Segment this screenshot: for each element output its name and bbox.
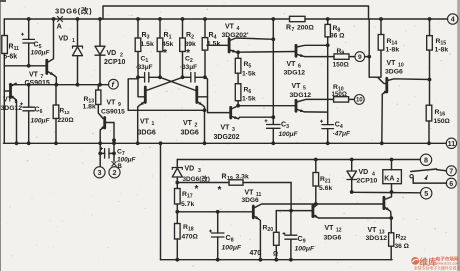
- svg-text:VD: VD: [107, 50, 117, 57]
- resistor R14: [380, 19, 382, 35]
- terminal 3: [94, 167, 105, 178]
- svg-text:2CP10: 2CP10: [104, 59, 126, 66]
- resistor R16: [426, 105, 432, 121]
- svg-text:3DG202': 3DG202': [222, 32, 249, 39]
- svg-text:5.7k: 5.7k: [181, 201, 194, 208]
- node B: [112, 162, 116, 166]
- wire lower top rail: [177, 159, 420, 161]
- svg-text:100μF: 100μF: [295, 246, 315, 253]
- svg-text:1·5k: 1·5k: [242, 71, 256, 78]
- svg-text:7: 7: [292, 27, 295, 33]
- svg-text:3: 3: [232, 127, 235, 133]
- terminal 7: [446, 166, 456, 176]
- svg-text:100μF: 100μF: [117, 157, 137, 164]
- svg-text:220Ω: 220Ω: [58, 117, 74, 124]
- svg-text:VT: VT: [325, 225, 335, 232]
- svg-text:3DG12: 3DG12: [290, 92, 312, 99]
- svg-text:4: 4: [451, 15, 455, 24]
- svg-text:1: 1: [72, 38, 75, 44]
- capacitor C9: [290, 211, 292, 235]
- wire emitter bus: [128, 109, 204, 111]
- svg-text:KA: KA: [384, 176, 394, 183]
- svg-text:VT: VT: [245, 190, 255, 197]
- svg-text:2: 2: [120, 53, 123, 59]
- svg-text:19: 19: [227, 176, 233, 182]
- wire VT1 collector L: [138, 77, 144, 97]
- svg-text:1·5k: 1·5k: [242, 96, 256, 103]
- svg-text:2: 2: [195, 123, 198, 129]
- wire VT12 base L: [290, 183, 292, 211]
- svg-text:470: 470: [250, 250, 262, 257]
- svg-text:Ω: Ω: [273, 251, 278, 258]
- terminal 2: [109, 167, 120, 178]
- svg-text:3: 3: [198, 168, 201, 174]
- svg-text:VT: VT: [3, 97, 13, 104]
- svg-text:150Ω: 150Ω: [434, 118, 451, 125]
- resistor R17: [175, 189, 181, 205]
- svg-text:3: 3: [98, 168, 102, 177]
- terminal 9: [355, 52, 365, 62]
- svg-text:*: *: [218, 185, 222, 196]
- svg-text:5: 5: [303, 86, 306, 92]
- capacitor C7: [99, 143, 101, 166]
- capacitor C6: [28, 85, 30, 107]
- svg-text:1.8k: 1.8k: [83, 104, 96, 111]
- transistor VT8 3DG12: [9, 84, 12, 97]
- svg-text:VT: VT: [287, 61, 297, 68]
- capacitor C3: [267, 124, 281, 126]
- svg-text:VT: VT: [140, 119, 150, 126]
- svg-text:·33μF: ·33μF: [180, 64, 197, 71]
- resistor R19: [177, 182, 229, 184]
- svg-text:VT: VT: [221, 125, 231, 132]
- svg-text:7: 7: [449, 166, 453, 175]
- capacitor C4: [322, 124, 334, 126]
- resistor R1: [159, 19, 161, 38]
- svg-text:3DG6: 3DG6: [181, 130, 199, 137]
- resistor R2: [182, 19, 184, 38]
- transistor VT6 3DG12: [295, 45, 298, 56]
- wire node R11/C5/VT7-base: [4, 65, 46, 67]
- svg-text:3DG6: 3DG6: [242, 197, 260, 204]
- svg-text:1.5k: 1.5k: [141, 41, 154, 48]
- svg-text:3DG12: 3DG12: [366, 235, 388, 242]
- node A: [57, 16, 62, 21]
- capacitor C1: [144, 73, 146, 83]
- wire top rail: [4, 18, 289, 20]
- wire lower-section feed: [159, 141, 163, 145]
- wire right drop x369: [368, 19, 370, 77]
- svg-text:全球专业电子元器件交易平台: 全球专业电子元器件交易平台: [414, 266, 460, 271]
- resistor R5: [237, 52, 239, 58]
- svg-text:1.5k: 1.5k: [207, 41, 220, 48]
- svg-text:VT: VT: [183, 120, 193, 127]
- svg-text:1-8k: 1-8k: [435, 47, 449, 54]
- resistor R21: [315, 160, 317, 173]
- svg-text:VD: VD: [185, 166, 195, 173]
- node f: [109, 79, 119, 89]
- resistor R4: [204, 19, 206, 38]
- wire lower left edge top: [176, 160, 178, 167]
- terminal 10: [354, 95, 364, 105]
- transistor VT1 3DG6: [144, 87, 147, 103]
- transistor VT5 3DG12: [295, 100, 298, 111]
- svg-text:3DG6(改): 3DG6(改): [183, 174, 210, 183]
- wire VT11 base line: [177, 211, 253, 213]
- svg-text:4: 4: [237, 26, 240, 32]
- transistor VT12 3DG6: [311, 206, 314, 217]
- svg-text:3.3k: 3.3k: [236, 174, 249, 181]
- svg-text:VT: VT: [107, 100, 117, 107]
- transistor VT10 3DG6: [385, 78, 388, 92]
- svg-text:9: 9: [118, 102, 121, 108]
- svg-text:3DG202: 3DG202: [214, 134, 240, 141]
- wire VT12 base line: [276, 210, 313, 212]
- terminal 6: [446, 178, 456, 188]
- capacitor C2: [190, 73, 192, 83]
- terminal 4: [448, 14, 458, 24]
- resistor R13: [97, 85, 99, 90]
- diode VD2 2CP10: [99, 19, 101, 46]
- svg-text:B: B: [118, 164, 123, 170]
- svg-text:150Ω: 150Ω: [332, 91, 347, 98]
- svg-text:3DG6: 3DG6: [385, 69, 403, 76]
- svg-text:8: 8: [424, 155, 428, 164]
- svg-text:VT: VT: [225, 24, 235, 31]
- svg-text:VT: VT: [29, 72, 39, 79]
- resistor R20: [275, 211, 277, 233]
- svg-text:470Ω: 470Ω: [182, 234, 199, 241]
- resistor R11: [2, 36, 8, 54]
- svg-text:150Ω: 150Ω: [333, 62, 350, 69]
- resistor R18: [176, 212, 178, 224]
- resistor R9: [334, 54, 349, 59]
- svg-text:100μF: 100μF: [279, 131, 299, 138]
- transistor VT2 3DG6: [195, 87, 198, 103]
- resistor R7 (in rail): [290, 16, 306, 21]
- svg-text:3DG6: 3DG6: [324, 235, 342, 242]
- svg-text:36 Ω: 36 Ω: [330, 33, 345, 40]
- terminal 5: [421, 188, 432, 199]
- svg-text:100μF: 100μF: [31, 50, 51, 57]
- svg-text:1: 1: [152, 121, 155, 127]
- transistor VT4 3DG202: [228, 39, 231, 53]
- wire mid-left node line: [10, 84, 109, 86]
- svg-text:3DG6: 3DG6: [138, 130, 156, 137]
- wire cross-coupling: [160, 77, 196, 90]
- svg-text:3DG6(改): 3DG6(改): [55, 6, 92, 16]
- svg-text:100μF: 100μF: [31, 118, 51, 125]
- capacitor C5: [28, 19, 30, 39]
- transistor VT9 CS9015: [103, 118, 106, 129]
- wire supply drop x273.7: [272, 19, 274, 124]
- svg-text:5: 5: [424, 189, 428, 198]
- svg-text:·47μF: ·47μF: [333, 131, 352, 138]
- svg-text:*: *: [195, 184, 199, 195]
- svg-text:9: 9: [358, 54, 362, 61]
- svg-text:12: 12: [336, 228, 342, 234]
- wire left edge: [3, 19, 5, 36]
- transistor VT7 CS9015: [45, 60, 48, 73]
- svg-text:2: 2: [113, 168, 117, 177]
- transistor VT13 3DG12: [382, 197, 385, 208]
- svg-text:2CP10: 2CP10: [357, 178, 378, 185]
- transistor VT3 3DG202: [229, 107, 232, 118]
- wire lower bottom rail: [161, 259, 393, 261]
- svg-text:VT: VT: [368, 227, 378, 234]
- resistor R15: [429, 19, 431, 36]
- wire bottom rail (ground): [4, 142, 447, 144]
- transistor VT11 3DG6: [252, 206, 255, 218]
- diode VD4 2CP10: [351, 160, 353, 172]
- resistor R22: [390, 218, 392, 233]
- svg-text:R: R: [286, 25, 291, 32]
- svg-text:3DG12: 3DG12: [284, 70, 306, 77]
- svg-text:VT: VT: [387, 60, 397, 67]
- svg-text:·33μF: ·33μF: [136, 64, 153, 71]
- svg-text:1-8k: 1-8k: [386, 47, 400, 54]
- svg-text:VD: VD: [59, 36, 69, 43]
- svg-text:VT: VT: [292, 83, 302, 90]
- resistor R12: [55, 85, 57, 105]
- resistor R10: [334, 97, 349, 102]
- svg-text:A: A: [57, 22, 63, 31]
- relay contact: [410, 175, 413, 178]
- svg-text:3DG12: 3DG12: [1, 105, 23, 112]
- svg-text:11: 11: [448, 139, 456, 148]
- svg-text:10: 10: [356, 98, 363, 104]
- wire terminal5 line: [352, 191, 421, 194]
- svg-text:5.6k: 5.6k: [319, 185, 332, 192]
- svg-text:200Ω: 200Ω: [297, 25, 314, 32]
- diode VD1: [77, 19, 79, 46]
- resistor R8: [327, 19, 329, 24]
- svg-text:6: 6: [449, 179, 453, 188]
- svg-text:CS9015: CS9015: [101, 109, 125, 116]
- resistor R3: [137, 19, 139, 38]
- terminal 11: [446, 138, 456, 148]
- svg-text:36 Ω: 36 Ω: [395, 243, 410, 250]
- resistor R6: [235, 84, 241, 101]
- wire upper rail: [103, 6, 369, 19]
- svg-text:2: 2: [397, 178, 400, 184]
- svg-text:5-6k: 5-6k: [3, 54, 17, 61]
- svg-text:R: R: [222, 174, 227, 181]
- relay coil KA2: [391, 160, 393, 170]
- svg-text:100μF: 100μF: [222, 245, 242, 252]
- svg-text:VD: VD: [359, 169, 369, 176]
- capacitor C8: [217, 212, 219, 233]
- diode VD3 3DG6(gai): [172, 167, 182, 169]
- terminal 8: [420, 154, 431, 165]
- wire small loop: [128, 79, 138, 111]
